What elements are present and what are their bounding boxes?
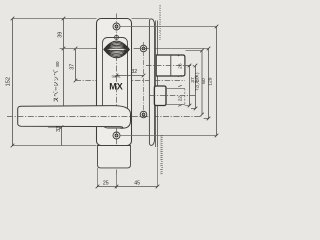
case front lower box: [98, 146, 131, 168]
dimension 32: [117, 75, 144, 77]
dimension 129 outer vertical: [216, 27, 218, 136]
label 22 with ticks: [178, 85, 182, 106]
lever handle bar with boss: [18, 106, 131, 129]
bottom right extension vertical: [157, 147, 159, 186]
small pivot circle: [115, 35, 119, 39]
faceplate strip: [156, 21, 158, 148]
bottom dimension line 25 45: [98, 186, 158, 188]
front view vertical centerline: [116, 14, 118, 175]
thumbturn center extension right: [147, 48, 209, 50]
lever centerline dash-dot: [7, 116, 202, 118]
deadbolt side view: [156, 55, 185, 76]
front plate: [97, 19, 132, 146]
top screw: [113, 23, 120, 30]
right screw column dash-dot: [143, 42, 145, 117]
right screw lower: [140, 111, 147, 118]
bottom left extension vertical: [97, 168, 99, 187]
extension line bottom plate level: [13, 145, 97, 147]
svg-text:72(: 72(: [195, 84, 200, 91]
side escutcheon edge slab: [149, 19, 154, 146]
side note tiny text bottom: [160, 136, 163, 174]
svg-text:25: 25: [103, 180, 109, 186]
bottom screw: [113, 132, 120, 139]
dim vertical x208.5: [204, 49, 209, 119]
deadbolt centerline: [146, 65, 196, 67]
dimension 33 extension and line: [48, 126, 62, 128]
latch centerline: [150, 95, 196, 97]
centerline extension to bottom dim: [116, 174, 118, 189]
svg-text:33: 33: [56, 126, 62, 132]
svg-text:60: 60: [201, 78, 207, 84]
svg-text:22: 22: [178, 96, 184, 102]
extension plate top to side view: [132, 18, 150, 20]
dimension 37 left line: [75, 49, 77, 81]
svg-text:GOAL: GOAL: [112, 75, 121, 79]
right screw upper: [140, 45, 147, 52]
extension line top plate level: [13, 18, 97, 20]
latch block side view: [154, 86, 166, 106]
thumbturn centerline dash-dot: [92, 48, 147, 50]
hidden feature line y81 dash-dot: [76, 80, 186, 82]
latch bottom extension: [185, 105, 190, 107]
svg-text:152: 152: [6, 77, 12, 86]
bottom screw extension line: [121, 135, 217, 137]
svg-text:39: 39: [58, 32, 64, 38]
side note tiny text top: [159, 5, 161, 39]
dimension line 39 / spacing80 shared vertical: [63, 19, 65, 117]
dim vertical x195.5: [191, 66, 196, 109]
svg-text:37: 37: [69, 64, 75, 70]
top screw extension line: [121, 26, 217, 28]
label 72 kanji simulated: [195, 72, 200, 91]
dim vertical x202: [201, 51, 203, 115]
deadbolt step line: [170, 55, 172, 76]
inner escutcheon panel: [103, 38, 128, 129]
svg-text:45: 45: [134, 180, 140, 186]
thumbturn center extension left: [60, 48, 92, 50]
extension for x202 top: [186, 50, 203, 52]
dimension 152 line: [12, 19, 14, 146]
label spacing80 simulated kana: [53, 70, 58, 102]
svg-text:129: 129: [208, 77, 214, 85]
label 26 with ticks: [178, 54, 182, 76]
svg-text:80: 80: [55, 61, 61, 67]
latch travel box: [166, 89, 185, 105]
thumbturn knob: [104, 41, 129, 58]
svg-text:26: 26: [177, 63, 183, 69]
svg-text:32: 32: [131, 69, 137, 75]
svg-text:MX: MX: [109, 81, 123, 91]
dim vertical x189.5: [189, 66, 191, 106]
